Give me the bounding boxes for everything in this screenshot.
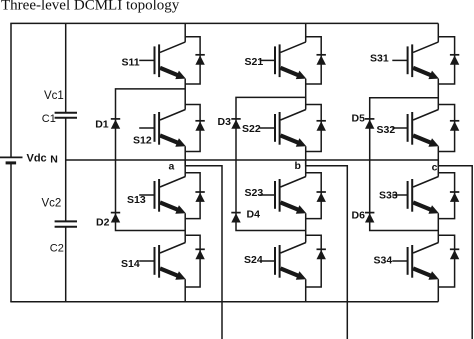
svg-text:D1: D1 bbox=[95, 118, 109, 130]
wire leg 2 segment row1-row2 bbox=[305, 79, 307, 110]
wire phase output a bbox=[185, 160, 222, 339]
diode freewheel of S34 bbox=[450, 249, 459, 259]
label D3 bbox=[218, 116, 232, 128]
label D1 bbox=[95, 118, 109, 130]
battery Vdc positive plate bbox=[0, 156, 23, 158]
transistor S14 (IGBT) bbox=[139, 243, 186, 280]
diode freewheel of S13 bbox=[195, 192, 204, 202]
svg-text:D2: D2 bbox=[96, 217, 110, 229]
wire S11 freewheel diode branch bbox=[185, 37, 200, 84]
svg-text:c: c bbox=[432, 162, 438, 174]
svg-text:S13: S13 bbox=[127, 194, 146, 206]
label D4 bbox=[247, 209, 261, 221]
diode freewheel of S33 bbox=[450, 192, 459, 202]
diode freewheel of S31 bbox=[450, 55, 459, 65]
wire capacitor rail middle section bbox=[65, 118, 67, 222]
wire leg 2 segment row2-node bbox=[305, 146, 307, 176]
wire S32 freewheel diode branch bbox=[438, 105, 454, 152]
svg-text:S34: S34 bbox=[374, 254, 393, 266]
svg-text:S23: S23 bbox=[245, 187, 264, 199]
diode freewheel of S11 bbox=[195, 55, 204, 65]
transistor S13 (IGBT) bbox=[139, 177, 186, 214]
diode freewheel of S22 bbox=[317, 121, 326, 131]
node a (phase output) bbox=[169, 161, 175, 173]
wire bottom DC- rail bbox=[10, 301, 438, 303]
wire capacitor rail bottom section bbox=[65, 227, 67, 302]
wire leg 2 collector segment row1 bbox=[305, 23, 307, 42]
wire capacitor rail top section bbox=[65, 23, 67, 112]
wire leg 1 segment row3-row4 bbox=[184, 213, 186, 242]
label Vc2 bbox=[42, 197, 62, 209]
svg-text:Vdc: Vdc bbox=[27, 152, 47, 164]
transistor S24 (IGBT) bbox=[260, 243, 307, 280]
svg-text:S22: S22 bbox=[242, 123, 261, 135]
capacitor C2 top plate bbox=[55, 220, 77, 222]
diode freewheel of S32 bbox=[450, 121, 459, 131]
svg-text:S11: S11 bbox=[122, 56, 140, 68]
diode freewheel of S24 bbox=[317, 249, 326, 259]
label S32 bbox=[377, 124, 396, 136]
wire S23 freewheel diode branch bbox=[306, 173, 322, 219]
wire leg 1 segment row4-bottom bbox=[184, 279, 186, 301]
wire leg 3 segment row1-row2 bbox=[437, 79, 439, 110]
node b (phase output) bbox=[295, 160, 301, 172]
wire clamp branch leg 1 bbox=[116, 89, 186, 231]
label S21 bbox=[245, 56, 264, 68]
transistor S21 (IGBT) bbox=[260, 42, 307, 79]
diode D5 (upper clamp) bbox=[365, 119, 374, 129]
transistor S34 (IGBT) bbox=[392, 243, 439, 280]
transistor S11 (IGBT) bbox=[139, 42, 186, 79]
label C1 bbox=[42, 113, 56, 125]
diode D3 (upper clamp) bbox=[231, 119, 240, 129]
label D5 bbox=[352, 113, 366, 125]
wire left rail upper (battery +) bbox=[10, 23, 12, 157]
label S34 bbox=[374, 254, 393, 266]
capacitor C2 bottom plate bbox=[55, 226, 77, 228]
diode freewheel of S21 bbox=[317, 55, 326, 65]
diode freewheel of S23 bbox=[317, 192, 326, 202]
wire S21 freewheel diode branch bbox=[306, 37, 322, 84]
wire S14 freewheel diode branch bbox=[185, 235, 200, 287]
label C2 bbox=[50, 242, 64, 254]
wire clamp branch leg 3 bbox=[370, 98, 439, 231]
wire neutral line N to legs bbox=[66, 159, 439, 161]
wire S12 freewheel diode branch bbox=[185, 105, 200, 152]
svg-text:D4: D4 bbox=[247, 209, 261, 221]
transistor S33 (IGBT) bbox=[392, 177, 439, 214]
label S22 bbox=[242, 123, 261, 135]
svg-text:a: a bbox=[169, 161, 175, 173]
wire leg 3 segment row2-node bbox=[437, 146, 439, 176]
capacitor C1 bottom plate bbox=[55, 117, 77, 119]
wire S13 freewheel diode branch bbox=[185, 173, 200, 219]
wire S33 freewheel diode branch bbox=[438, 173, 454, 219]
transistor S12 (IGBT) bbox=[139, 110, 186, 147]
svg-text:Vc2: Vc2 bbox=[42, 197, 62, 209]
wire leg 2 segment row4-bottom bbox=[305, 279, 307, 301]
wire leg 3 segment row3-row4 bbox=[437, 213, 439, 242]
label D2 bbox=[96, 217, 110, 229]
wire leg 2 segment row3-row4 bbox=[305, 213, 307, 242]
transistor S32 (IGBT) bbox=[392, 110, 439, 147]
svg-text:D3: D3 bbox=[218, 116, 232, 128]
wire S34 freewheel diode branch bbox=[438, 235, 454, 287]
diode D4 (lower clamp) bbox=[231, 213, 240, 223]
label S23 bbox=[245, 187, 264, 199]
wire leg 1 segment row1-row2 bbox=[184, 79, 186, 110]
wire leg 3 collector segment row1 bbox=[437, 23, 439, 42]
wire S31 freewheel diode branch bbox=[438, 37, 454, 84]
wire left rail lower (battery -) bbox=[10, 163, 12, 302]
svg-text:b: b bbox=[295, 160, 301, 172]
svg-text:C1: C1 bbox=[42, 113, 56, 125]
capacitor C1 top plate bbox=[55, 112, 77, 114]
battery Vdc negative plate bbox=[6, 161, 17, 164]
diode D2 (lower clamp) bbox=[111, 213, 120, 223]
transistor S31 (IGBT) bbox=[392, 42, 439, 79]
svg-text:D5: D5 bbox=[352, 113, 366, 125]
wire S22 freewheel diode branch bbox=[306, 105, 322, 152]
node c (phase output) bbox=[432, 162, 438, 174]
svg-text:S31: S31 bbox=[370, 53, 389, 65]
svg-text:D6: D6 bbox=[352, 210, 366, 222]
svg-text:Vc1: Vc1 bbox=[44, 90, 64, 102]
svg-text:S12: S12 bbox=[133, 134, 152, 146]
wire phase output c bbox=[438, 160, 472, 339]
wire leg 3 segment row4-bottom bbox=[437, 279, 439, 301]
label S13 bbox=[127, 194, 146, 206]
diode D1 (upper clamp) bbox=[111, 119, 120, 129]
label S24 bbox=[244, 254, 263, 266]
label S12 bbox=[133, 134, 152, 146]
diode freewheel of S14 bbox=[195, 249, 204, 259]
svg-text:N: N bbox=[50, 154, 58, 166]
svg-text:Three-level DCMLI topology: Three-level DCMLI topology bbox=[1, 0, 180, 13]
wire top DC+ rail bbox=[10, 22, 438, 24]
svg-text:S32: S32 bbox=[377, 124, 396, 136]
wire S24 freewheel diode branch bbox=[306, 235, 322, 287]
svg-text:S24: S24 bbox=[244, 254, 263, 266]
label S14 bbox=[121, 258, 140, 270]
label S11 bbox=[122, 56, 140, 68]
svg-text:S21: S21 bbox=[245, 56, 264, 68]
svg-text:S14: S14 bbox=[121, 258, 140, 270]
diode freewheel of S12 bbox=[195, 121, 204, 131]
label S33 bbox=[379, 190, 398, 202]
wire leg 1 segment row2-node bbox=[184, 146, 186, 176]
label S31 bbox=[370, 53, 389, 65]
wire phase output b bbox=[306, 160, 348, 339]
label Vdc bbox=[27, 152, 47, 164]
svg-text:S33: S33 bbox=[379, 190, 398, 202]
svg-text:C2: C2 bbox=[50, 242, 64, 254]
label D6 bbox=[352, 210, 366, 222]
transistor S22 (IGBT) bbox=[260, 110, 307, 147]
label N (neutral point) bbox=[50, 154, 58, 166]
diode D6 (lower clamp) bbox=[365, 213, 374, 223]
transistor S23 (IGBT) bbox=[260, 177, 307, 214]
label Vc1 bbox=[44, 90, 64, 102]
wire leg 1 collector segment row1 bbox=[184, 23, 186, 42]
wire clamp branch leg 2 bbox=[236, 97, 306, 230]
